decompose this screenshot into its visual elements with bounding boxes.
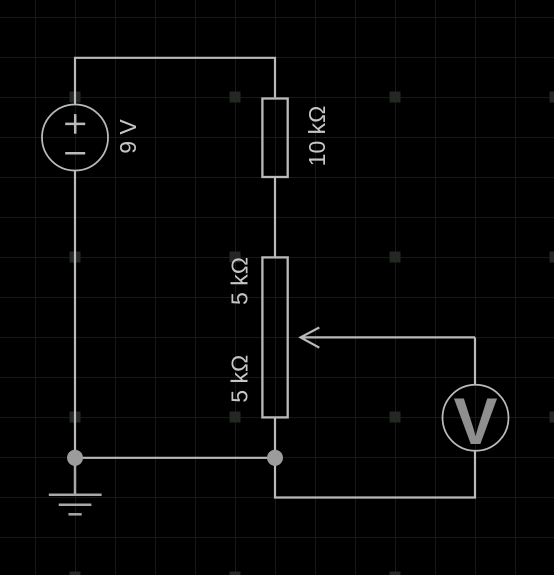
potentiometer R2 body [262,257,287,417]
potentiometer R2 wiper arrow [301,328,476,348]
ground [49,465,102,514]
svg-text:10 kΩ: 10 kΩ [304,106,330,167]
junction node at ground rail right [267,450,283,466]
wire from R1 bottom to potentiometer top [274,178,276,257]
resistor R1 [262,99,287,178]
wire from voltmeter bottom to potentiometer bottom node [275,418,475,498]
wire from V1 bottom to ground node [74,171,76,458]
svg-text:V: V [453,384,497,458]
wire from wiper to voltmeter top [474,337,476,384]
wire from V1 top via top rail to R1 top [75,58,275,105]
junction node at ground rail left [67,450,83,466]
svg-text:5 kΩ: 5 kΩ [227,257,253,305]
voltage source V1 [42,105,108,171]
svg-text:9 V: 9 V [115,119,141,154]
voltmeter M1 [443,384,509,458]
wire bottom rail between junctions [75,457,275,459]
svg-text:5 kΩ: 5 kΩ [227,355,253,403]
